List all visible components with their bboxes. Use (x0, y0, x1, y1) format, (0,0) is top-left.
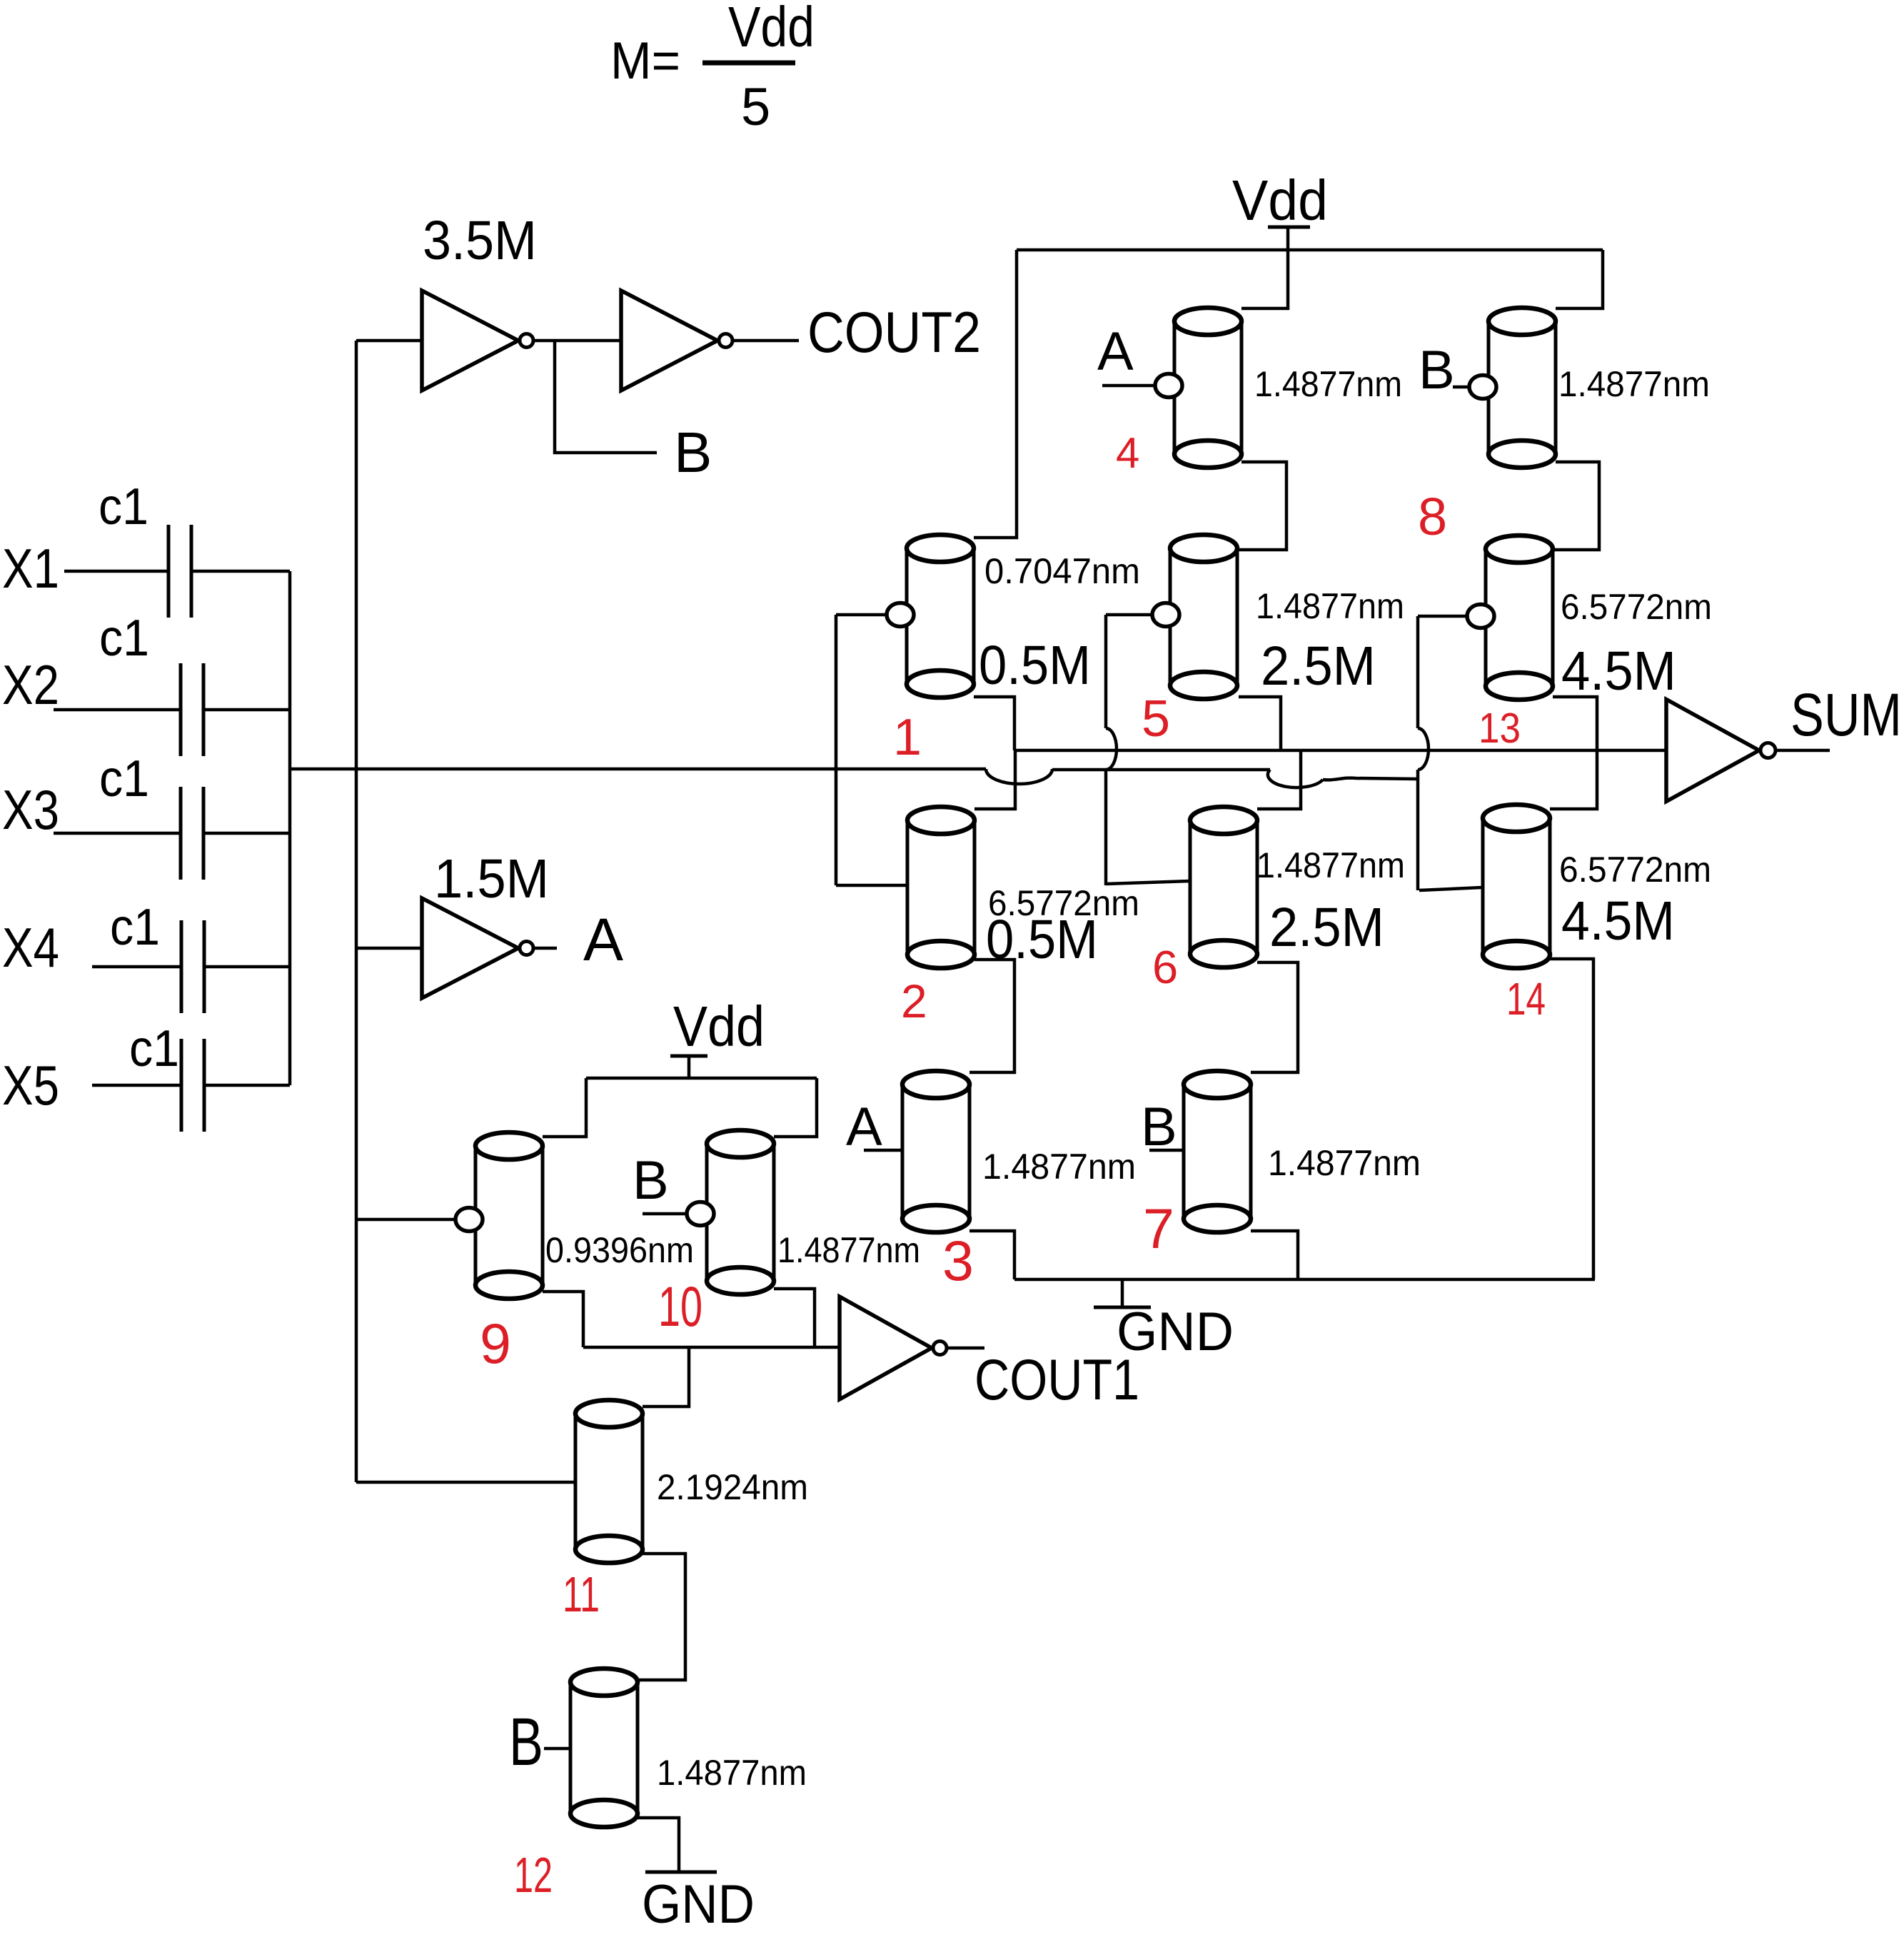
wire T2 source step to T3 (969, 960, 1014, 1072)
wire summing bus vertical (288, 571, 292, 1085)
inverter U5 (COUT1 driver) (840, 1297, 932, 1399)
svg-text:1.4877nm: 1.4877nm (777, 1230, 920, 1270)
transistor 2 (n-CNTFET 0.5M) (907, 807, 974, 968)
wire rail drop to T9 top (543, 1078, 586, 1137)
svg-text:c1: c1 (129, 1020, 179, 1077)
svg-text:1.4877nm: 1.4877nm (1558, 364, 1710, 404)
svg-text:13: 13 (1479, 705, 1521, 752)
svg-text:SUM: SUM (1790, 681, 1902, 748)
transistor 14 (n-CNTFET 4.5M) (1483, 805, 1550, 968)
wire T9 source step down (543, 1292, 583, 1347)
wire main gate net segment 3 (wavy) (1323, 778, 1418, 780)
wire B to T12 gate (544, 1747, 570, 1751)
transistor 4 (p-CNTFET, gate A) (1174, 308, 1241, 468)
svg-text:1.4877nm: 1.4877nm (982, 1147, 1136, 1187)
capacitor c1 (X5 branch) (92, 1039, 204, 1132)
svg-text:A: A (583, 906, 623, 973)
wire gate stub T1 (836, 613, 886, 617)
wire Vdd rail (middle) (586, 1077, 817, 1080)
svg-text:10: 10 (658, 1274, 702, 1338)
svg-text:Vdd: Vdd (1232, 168, 1328, 232)
svg-text:11: 11 (563, 1566, 600, 1622)
wire T4 drain step to T5 (1237, 462, 1286, 550)
svg-text:Vdd: Vdd (728, 0, 815, 59)
ground GND (bottom) (642, 1872, 755, 1935)
svg-text:12: 12 (514, 1847, 553, 1903)
svg-text:B: B (674, 421, 712, 484)
wire pair5/6 gate vertical upper (1104, 615, 1108, 728)
wire T8 drain step to T13 (1553, 462, 1599, 550)
wire T13 source down to T14 drain (1550, 697, 1597, 809)
svg-text:B: B (633, 1150, 669, 1211)
wire X4 capacitor to summing bus (204, 965, 290, 969)
wire B branch down from U1 output (555, 341, 657, 453)
svg-text:Vdd: Vdd (673, 995, 765, 1058)
wire gate stub T2 (836, 884, 907, 887)
svg-text:0.7047nm: 0.7047nm (984, 551, 1140, 591)
svg-text:6: 6 (1152, 941, 1178, 993)
wire X3 capacitor to summing bus (203, 832, 290, 835)
svg-text:X5: X5 (2, 1054, 59, 1117)
transistor 3 (n-CNTFET, gate A) (902, 1071, 969, 1232)
svg-text:X1: X1 (2, 537, 59, 600)
wire hop over output net (pair5/6 gate) (1106, 728, 1117, 770)
svg-text:6.5772nm: 6.5772nm (1561, 587, 1712, 627)
wire gate stub T13 (1418, 615, 1466, 618)
svg-text:4.5M: 4.5M (1561, 640, 1676, 702)
wire pair1/2 gate vertical (835, 615, 838, 885)
wire output net down to T2 drain (974, 750, 1015, 809)
svg-text:COUT1: COUT1 (974, 1348, 1139, 1412)
wire A to T4 gate (1102, 384, 1154, 388)
svg-text:M=: M= (610, 32, 680, 90)
inverter U2 (COUT2 buffer stage 2) (621, 291, 717, 391)
wire pair13/14 gate vertical lower (1416, 770, 1420, 890)
svg-text:c1: c1 (99, 478, 148, 535)
transistor 7 (n-CNTFET, gate B) (1184, 1071, 1251, 1232)
svg-text:0.9396nm: 0.9396nm (545, 1230, 694, 1270)
wire T3 source to GND rail (969, 1231, 1014, 1279)
formula M = Vdd / 5 (610, 0, 815, 136)
svg-text:c1: c1 (110, 899, 160, 956)
wire left net to T11 gate (356, 1481, 575, 1484)
transistor 1 (p-CNTFET 0.5M) (907, 535, 974, 698)
wire T14 source to GND rail (1550, 959, 1593, 1279)
svg-text:1.4877nm: 1.4877nm (1268, 1143, 1421, 1183)
svg-text:1.4877nm: 1.4877nm (1254, 364, 1402, 404)
transistor 10 (p-CNTFET 1.4877nm) (707, 1130, 774, 1294)
svg-text:14: 14 (1506, 973, 1546, 1025)
wire output net to SUM inverter (1014, 749, 1666, 753)
wire T1 source step down (974, 697, 1014, 750)
svg-text:2: 2 (901, 975, 927, 1027)
wire B to T7 gate (1149, 1149, 1184, 1152)
svg-text:3: 3 (942, 1229, 974, 1292)
wire carry net down to T11 drain (643, 1347, 689, 1407)
svg-text:1.4877nm: 1.4877nm (1256, 586, 1404, 626)
wire T11 source step to T12 (638, 1554, 685, 1680)
svg-text:B: B (1141, 1097, 1177, 1157)
wire X1 capacitor to summing bus (191, 570, 290, 573)
wire T6 source step to T7 (1251, 962, 1298, 1072)
wire gate stub T6 (1106, 881, 1190, 884)
wire T7 source to GND rail (1251, 1231, 1298, 1279)
svg-text:1.4877nm: 1.4877nm (1256, 845, 1405, 885)
svg-text:2.1924nm: 2.1924nm (657, 1467, 808, 1507)
wire U3 input (356, 947, 422, 950)
wire left net to T9 gate (356, 1218, 455, 1222)
capacitor c1 (X2 branch) (54, 663, 203, 756)
wire GND rail (1014, 1278, 1595, 1282)
svg-text:8: 8 (1418, 487, 1447, 546)
svg-text:B: B (509, 1704, 543, 1780)
svg-text:4.5M: 4.5M (1561, 890, 1675, 952)
capacitor c1 (X4 branch) (92, 920, 204, 1013)
svg-text:5: 5 (741, 77, 770, 136)
wire pair5/6 gate vertical lower (1104, 770, 1108, 885)
wire U4 output (1777, 749, 1830, 753)
svg-text:X4: X4 (2, 916, 59, 979)
wire Vdd rail left drop to T1 (974, 250, 1017, 538)
wire hop over output net (pair13/14 gate) (1418, 728, 1429, 770)
svg-text:A: A (1097, 321, 1134, 382)
svg-text:2.5M: 2.5M (1269, 897, 1384, 958)
wire T5 source step down (1239, 697, 1281, 750)
transistor 5 (p-CNTFET 2.5M) (1170, 535, 1237, 699)
svg-text:A: A (846, 1097, 882, 1157)
wire U3 output (535, 947, 557, 950)
wire Vdd rail (top) (1017, 248, 1603, 252)
wire gate stub T14 (1419, 887, 1482, 890)
wire output net down to T6 drain (1257, 750, 1301, 809)
wire main gate net segment 2 (1052, 768, 1270, 772)
wire hop over T6 drain vertical (1268, 770, 1323, 788)
capacitor c1 (X1 branch) (64, 525, 191, 618)
svg-text:4: 4 (1116, 429, 1139, 477)
svg-text:COUT2: COUT2 (807, 301, 981, 365)
svg-text:0.5M: 0.5M (979, 635, 1091, 696)
svg-text:X3: X3 (2, 778, 59, 841)
svg-text:9: 9 (480, 1312, 511, 1375)
wire hop over T2 drain vertical (986, 769, 1052, 784)
power symbol Vdd (middle) (670, 995, 765, 1078)
wire carry net rail (to COUT1) (583, 1346, 840, 1349)
transistor 12 (n-CNTFET, gate B) (570, 1669, 638, 1827)
svg-text:c1: c1 (99, 610, 149, 667)
wire left vertical net (caps junction / buffers / gates) (355, 341, 358, 1482)
wire main gate net horizontal (caps to pair gates) (290, 768, 986, 771)
wire X5 capacitor to summing bus (204, 1084, 290, 1087)
transistor 6 (n-CNTFET 2.5M) (1190, 807, 1257, 967)
wire U2 output (734, 339, 799, 343)
transistor 9 (p-CNTFET 0.9396nm) (475, 1132, 543, 1299)
wire rail drop to T10 top (774, 1078, 817, 1137)
svg-text:2.5M: 2.5M (1261, 635, 1376, 697)
wire X2 capacitor to summing bus (203, 708, 290, 712)
inverter U1 (3.5M buffer stage 1) (422, 291, 518, 391)
wire gate stub T5 (1106, 613, 1152, 617)
wire Vdd stub drop to T4 top (1241, 250, 1288, 308)
svg-text:GND: GND (642, 1874, 755, 1935)
svg-text:3.5M: 3.5M (423, 210, 537, 271)
wire T10 source step down (774, 1289, 815, 1347)
wire Vdd rail right drop to T8 top (1556, 250, 1603, 308)
svg-text:1: 1 (893, 709, 922, 766)
svg-text:1.5M: 1.5M (434, 848, 549, 910)
transistor 11 (n-CNTFET 2.1924nm) (575, 1400, 643, 1563)
inverter U4 (SUM driver) (1666, 700, 1759, 802)
wire U5 output (948, 1347, 984, 1350)
wire B to T8 gate (1453, 386, 1469, 389)
svg-text:B: B (1419, 340, 1455, 401)
svg-text:X2: X2 (2, 653, 59, 716)
capacitor c1 (X3 branch) (54, 787, 203, 880)
power symbol Vdd (top) (1232, 168, 1328, 250)
transistor 8 (p-CNTFET, gate B) (1489, 308, 1556, 468)
svg-text:7: 7 (1143, 1197, 1174, 1260)
svg-text:6.5772nm: 6.5772nm (1559, 850, 1711, 890)
transistor 13 (p-CNTFET 4.5M) (1486, 535, 1553, 700)
svg-text:c1: c1 (99, 750, 149, 807)
inverter U3 (1.5M, drives A) (422, 898, 518, 998)
wire U1 input (356, 339, 422, 343)
wire pair13/14 gate vertical upper (1416, 616, 1420, 728)
wire T12 source to ground (638, 1818, 679, 1872)
wire A to T3 gate (864, 1149, 902, 1152)
ground GND (main rail) (1094, 1279, 1234, 1362)
svg-text:1.4877nm: 1.4877nm (657, 1753, 807, 1793)
wire B to T10 gate (643, 1212, 686, 1216)
wire U1 output to U2 input (535, 339, 621, 343)
svg-text:5: 5 (1142, 690, 1170, 748)
